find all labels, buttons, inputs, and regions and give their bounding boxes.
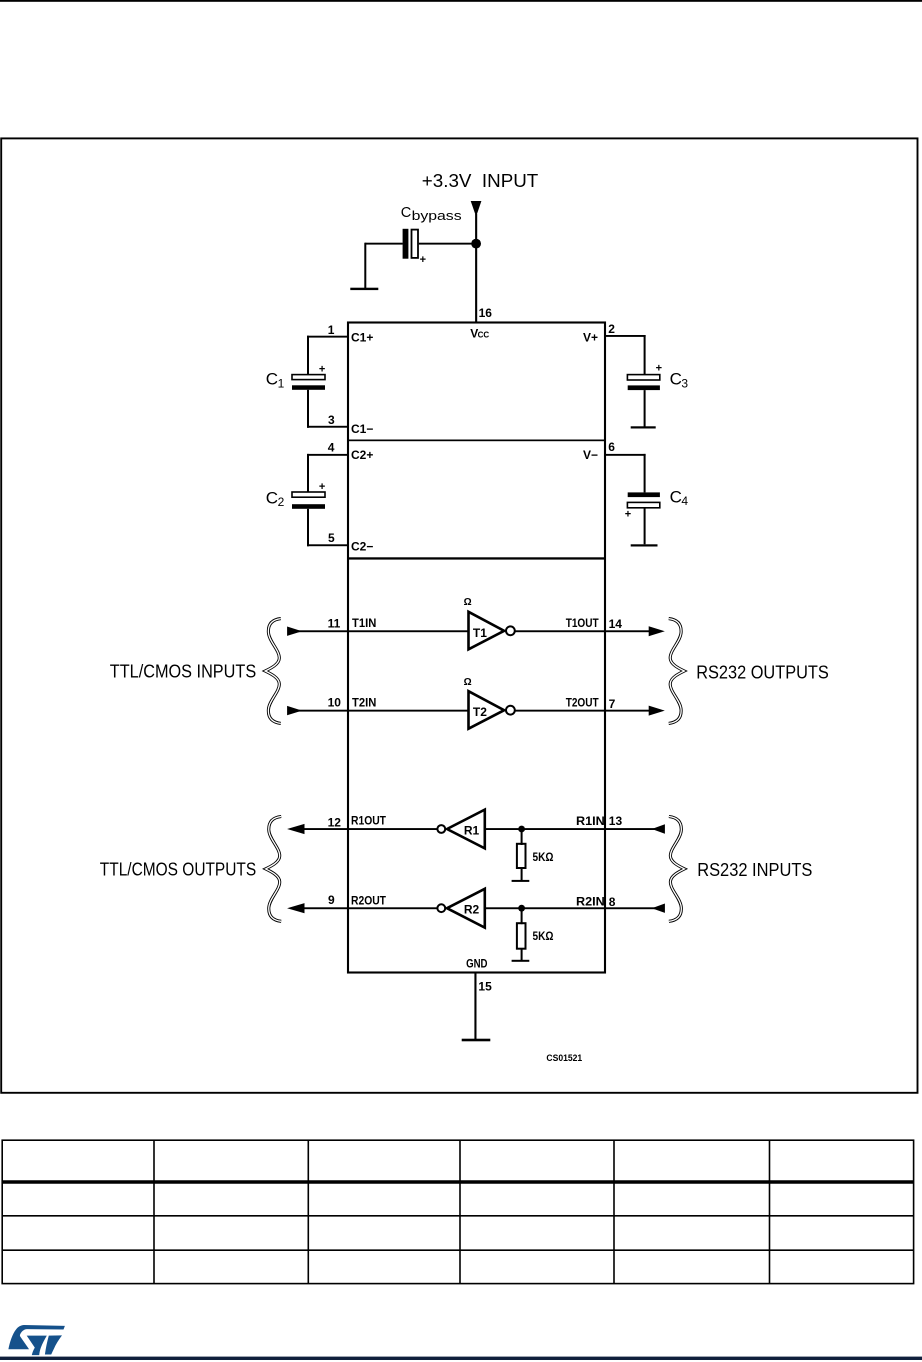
wire: pin6 to C4 — [605, 454, 646, 456]
svg-text:CC: CC — [478, 330, 490, 339]
power input arrow — [471, 201, 482, 217]
wire: pin2 to C3 — [605, 335, 646, 337]
RS232 output arrow T1OUT — [649, 626, 665, 636]
ground (GND) — [462, 1039, 491, 1042]
svg-text:T2OUT: T2OUT — [566, 698, 599, 710]
svg-text:R1IN: R1IN — [576, 816, 605, 828]
svg-text:+: + — [420, 254, 426, 266]
svg-text:bypass: bypass — [412, 209, 462, 223]
svg-text:T2IN: T2IN — [352, 698, 376, 710]
brace RS232 inputs — [669, 817, 685, 922]
svg-text:5KΩ: 5KΩ — [533, 852, 554, 864]
wire: R2 input to pin R2IN — [485, 907, 605, 909]
TTL input arrow T2IN — [287, 706, 302, 715]
wire: GND pin down — [474, 973, 476, 1040]
wire: R1 input to pin R1IN — [485, 828, 605, 830]
brace TTL/CMOS outputs — [266, 817, 282, 922]
RS232 input arrow R1IN — [652, 824, 665, 833]
op-amp T2 — [469, 691, 505, 729]
svg-text:1: 1 — [278, 376, 285, 390]
svg-text:7: 7 — [609, 697, 616, 711]
svg-text:T1: T1 — [473, 626, 487, 640]
wire: pin4 to C2 — [307, 454, 348, 456]
ground (C4) — [631, 544, 658, 546]
svg-text:V+: V+ — [583, 330, 598, 344]
svg-text:+3.3V INPUT: +3.3V INPUT — [422, 170, 539, 191]
svg-text:1: 1 — [328, 323, 335, 337]
svg-text:T2: T2 — [473, 705, 487, 719]
svg-text:C: C — [266, 370, 278, 389]
node R2 — [518, 905, 525, 912]
node: Vcc junction — [471, 239, 481, 249]
wire: arrow to pin T2IN — [296, 710, 348, 712]
RS232 output arrow T2OUT — [649, 706, 665, 716]
svg-text:16: 16 — [479, 306, 493, 320]
wire: pin8 to arrow — [605, 907, 657, 909]
IC body — [348, 323, 605, 973]
ground (Cbypass) — [350, 288, 378, 290]
svg-text:TTL/CMOS OUTPUTS: TTL/CMOS OUTPUTS — [100, 859, 256, 880]
svg-text:2: 2 — [278, 495, 285, 509]
wire: arrow to Vcc pin — [475, 214, 477, 323]
op-amp R2 — [447, 889, 485, 928]
table — [2, 1140, 913, 1283]
svg-text:3: 3 — [328, 413, 335, 427]
svg-text:14: 14 — [609, 617, 623, 631]
svg-text:6: 6 — [608, 440, 615, 454]
wire: bubble to R1OUT — [348, 828, 437, 830]
ground (C3) — [631, 426, 656, 428]
wire: pin R2OUT to arrow — [296, 907, 348, 909]
svg-text:C: C — [266, 488, 278, 507]
resistor 5K (R1) — [521, 829, 523, 845]
svg-text:RS232 OUTPUTS: RS232 OUTPUTS — [696, 661, 829, 682]
capacitor C4 — [628, 492, 660, 497]
svg-text:+: + — [319, 363, 325, 375]
svg-text:2: 2 — [608, 322, 615, 336]
wire: C4 to ground — [644, 508, 646, 545]
TTL input arrow T1IN — [287, 627, 302, 636]
svg-text:Ω: Ω — [464, 597, 472, 608]
svg-text:TTL/CMOS INPUTS: TTL/CMOS INPUTS — [110, 661, 256, 682]
TTL output arrow R1OUT — [287, 824, 304, 834]
wire: C2 to pin5 — [307, 509, 309, 547]
svg-text:4: 4 — [328, 440, 335, 454]
svg-text:Ω: Ω — [464, 677, 472, 688]
wire: Cbypass right plate to junction — [419, 243, 476, 245]
brace RS232 outputs — [669, 619, 685, 724]
svg-text:12: 12 — [328, 816, 342, 830]
svg-text:10: 10 — [328, 696, 342, 710]
svg-text:C: C — [670, 370, 682, 389]
wire: T1IN to inverter — [348, 630, 469, 632]
node R1 — [518, 826, 525, 833]
svg-text:4: 4 — [681, 494, 688, 508]
svg-text:11: 11 — [328, 617, 341, 631]
wire: arrow to pin T1IN — [296, 630, 348, 632]
wire: bubble to T2OUT — [515, 710, 605, 712]
svg-text:C2−: C2− — [351, 539, 373, 553]
svg-text:15: 15 — [478, 979, 492, 993]
IC divider 2 — [348, 557, 605, 559]
wire: bubble to R2OUT — [348, 907, 437, 909]
IC divider 1 — [348, 440, 605, 442]
svg-text:R2IN: R2IN — [576, 897, 605, 909]
svg-text:R1: R1 — [464, 823, 480, 837]
capacitor Cbypass — [403, 229, 409, 259]
svg-text:C: C — [401, 205, 412, 221]
svg-text:13: 13 — [609, 814, 623, 828]
wire: pin7 out — [605, 710, 655, 712]
ST logo — [8, 1325, 65, 1355]
svg-text:5: 5 — [328, 531, 335, 545]
svg-text:C1−: C1− — [351, 422, 373, 436]
figure frame — [1, 138, 917, 1092]
resistor 5K (R2) — [521, 908, 523, 924]
svg-text:RS232 INPUTS: RS232 INPUTS — [697, 859, 812, 880]
page top rule — [0, 0, 922, 2]
svg-text:V−: V− — [583, 448, 598, 462]
RS232 input arrow R2IN — [652, 904, 665, 913]
page bottom rule — [0, 1357, 922, 1360]
wire: pin R1OUT to arrow — [296, 828, 348, 830]
svg-text:T1OUT: T1OUT — [566, 618, 599, 630]
svg-text:C: C — [670, 488, 682, 507]
wire: pin1 to C1 — [307, 336, 348, 338]
svg-text:8: 8 — [609, 895, 616, 909]
svg-text:C1+: C1+ — [351, 330, 373, 344]
svg-text:CS01521: CS01521 — [546, 1053, 582, 1063]
svg-text:R2OUT: R2OUT — [351, 896, 386, 908]
svg-text:9: 9 — [328, 893, 335, 907]
brace TTL/CMOS inputs — [265, 619, 281, 724]
op-amp R1 — [447, 810, 485, 849]
svg-text:T1IN: T1IN — [352, 618, 376, 630]
wire: C3 to ground — [644, 390, 646, 427]
TTL output arrow R2OUT — [287, 903, 304, 913]
wire: Cbypass left plate to ground — [365, 243, 403, 245]
svg-text:5KΩ: 5KΩ — [533, 931, 554, 943]
svg-text:+: + — [656, 363, 662, 375]
op-amp T1 — [469, 612, 505, 650]
wire: pin13 to arrow — [605, 828, 657, 830]
wire: T2IN to inverter — [348, 710, 469, 712]
wire: bubble to T1OUT — [515, 630, 605, 632]
svg-text:C2+: C2+ — [351, 448, 373, 462]
svg-text:R2: R2 — [464, 903, 480, 917]
svg-text:3: 3 — [681, 376, 688, 390]
svg-text:GND: GND — [466, 958, 487, 970]
wire: pin14 out — [605, 630, 655, 632]
svg-text:R1OUT: R1OUT — [351, 816, 386, 828]
svg-text:+: + — [625, 508, 631, 520]
wire: C1 to pin3 — [307, 390, 309, 428]
